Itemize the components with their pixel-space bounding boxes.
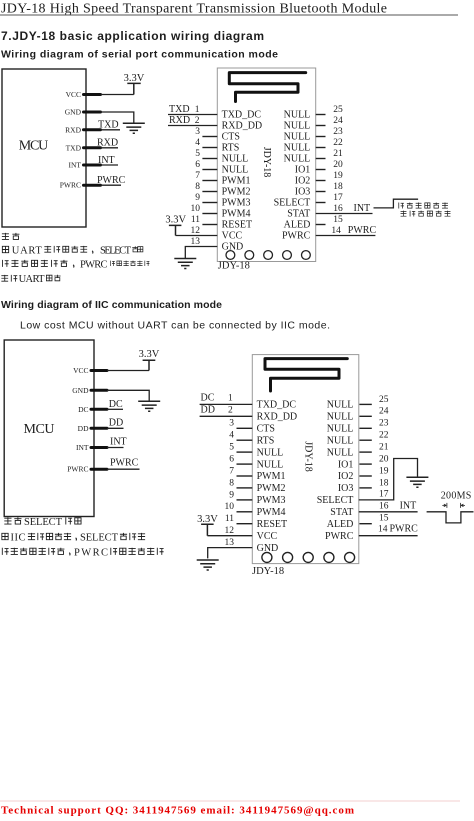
- wire VCC to 3.3V: [101, 94, 134, 96]
- svg-text:21: 21: [333, 149, 343, 159]
- svg-text:RESET: RESET: [222, 220, 253, 231]
- pin 2 wire RXD: [168, 125, 217, 127]
- svg-text:7: 7: [195, 171, 200, 181]
- svg-text:NULL: NULL: [327, 435, 354, 446]
- svg-text:22: 22: [333, 138, 343, 148]
- module2 castellation holes: [262, 552, 355, 562]
- svg-text:1: 1: [228, 394, 233, 404]
- svg-text:GND: GND: [65, 108, 82, 117]
- wire GND to ground: [101, 112, 134, 123]
- svg-text:INT: INT: [98, 155, 115, 166]
- svg-text:8: 8: [195, 182, 200, 192]
- ground symbol at SELECT: [406, 477, 428, 487]
- svg-text:GND: GND: [72, 386, 89, 395]
- svg-text:VCC: VCC: [73, 366, 88, 375]
- svg-text:INT: INT: [76, 443, 89, 452]
- svg-text:SELECT: SELECT: [100, 246, 132, 257]
- svg-text:22: 22: [379, 431, 389, 441]
- pin 12 wire VCC module2: [207, 535, 252, 537]
- svg-text:DD: DD: [109, 417, 123, 428]
- MCU2 pin DD stub: [91, 427, 107, 430]
- wire RXD: [101, 147, 119, 149]
- svg-text:INT: INT: [110, 437, 127, 448]
- pin numbers 3-11 module2: [225, 419, 235, 524]
- bottom faint rule: [0, 800, 460, 802]
- svg-text:10: 10: [225, 502, 235, 512]
- antenna trace: [229, 73, 305, 102]
- svg-text:3.3V: 3.3V: [165, 214, 186, 225]
- svg-text:23: 23: [379, 419, 389, 429]
- svg-text:DD: DD: [78, 424, 89, 433]
- pin 14 wire PWRC: [316, 235, 376, 237]
- svg-text:JDY-18: JDY-18: [218, 261, 250, 272]
- svg-text:PWM2: PWM2: [257, 483, 286, 494]
- right pin numbers module2: [378, 395, 389, 535]
- wire TXD: [101, 129, 121, 131]
- svg-text:10: 10: [191, 204, 201, 214]
- ground symbol at MCU GND: [123, 123, 145, 133]
- 3.3V power symbol: [127, 83, 140, 94]
- module right stubs 25-17: [316, 115, 326, 225]
- svg-text:RESET: RESET: [257, 519, 288, 530]
- svg-text:4: 4: [195, 138, 200, 148]
- svg-text:MCU: MCU: [19, 139, 49, 154]
- svg-text:IO3: IO3: [338, 483, 354, 494]
- svg-text:20: 20: [333, 160, 343, 170]
- svg-text:SELECT: SELECT: [80, 533, 119, 544]
- svg-text:NULL: NULL: [284, 154, 311, 165]
- pins 3-11 stubs: [202, 137, 217, 225]
- svg-text:9: 9: [195, 193, 200, 203]
- MCU pin RXD stub: [84, 128, 101, 131]
- svg-text:UART: UART: [12, 246, 43, 257]
- svg-text:21: 21: [379, 443, 389, 453]
- svg-text:24: 24: [379, 407, 389, 417]
- annotation2 注意SELECT引脚: [4, 517, 81, 528]
- pin 16 wire INT module2: [359, 511, 418, 513]
- svg-text:6: 6: [195, 160, 200, 170]
- svg-text:DD: DD: [201, 405, 215, 416]
- pin 1 wire TXD: [168, 114, 217, 116]
- svg-text:3: 3: [195, 127, 200, 137]
- svg-text:TXD_DC: TXD_DC: [257, 400, 297, 411]
- svg-text:6: 6: [229, 455, 234, 465]
- svg-text:RXD_DD: RXD_DD: [257, 412, 298, 423]
- note 未连接低电平: [401, 211, 451, 217]
- svg-text:NULL: NULL: [327, 412, 354, 423]
- step (level) wire: [374, 199, 419, 208]
- svg-text:CTS: CTS: [222, 132, 240, 143]
- svg-text:Low cost MCU without UART can: Low cost MCU without UART can be connect…: [20, 320, 330, 332]
- pin 14 wire PWRC module2: [359, 535, 418, 537]
- svg-text:25: 25: [333, 105, 343, 115]
- svg-text:Technical support QQ: 34119475: Technical support QQ: 3411947569 email: …: [1, 805, 354, 817]
- svg-text:NULL: NULL: [284, 110, 311, 121]
- svg-text:PWRC: PWRC: [60, 181, 81, 190]
- svg-text:IO2: IO2: [295, 176, 311, 187]
- svg-text:TXD: TXD: [66, 143, 82, 152]
- svg-text:9: 9: [229, 490, 234, 500]
- svg-text:NULL: NULL: [257, 459, 284, 470]
- pin 2 wire DD: [200, 415, 253, 417]
- svg-text:ALED: ALED: [284, 220, 311, 231]
- MCU pin GND stub: [84, 111, 101, 114]
- svg-text:INT: INT: [69, 161, 82, 170]
- annotation line2 在UART通信方式下，SELECT悬空: [2, 246, 143, 257]
- svg-text:VCC: VCC: [66, 90, 81, 99]
- MCU2 pin DC stub: [91, 408, 107, 411]
- svg-text:NULL: NULL: [327, 424, 354, 435]
- svg-text:NULL: NULL: [327, 447, 354, 458]
- antenna trace 2: [265, 359, 347, 391]
- pin 16 wire INT: [316, 213, 373, 215]
- svg-text:INT: INT: [400, 500, 417, 511]
- svg-text:5: 5: [195, 149, 200, 159]
- svg-text:RTS: RTS: [222, 143, 240, 154]
- svg-text:DC: DC: [201, 393, 215, 404]
- svg-text:16: 16: [379, 501, 389, 511]
- svg-text:NULL: NULL: [327, 400, 354, 411]
- svg-text:3.3V: 3.3V: [139, 349, 160, 360]
- module right pin labels: [274, 110, 311, 242]
- module U4 JDY-18 box: [252, 355, 358, 564]
- wire DD: [107, 427, 124, 429]
- svg-text:MCU: MCU: [24, 422, 55, 437]
- pin 13 wire GND: [185, 247, 217, 259]
- svg-text:14: 14: [331, 226, 341, 236]
- right pin numbers: [331, 105, 343, 236]
- svg-text:IO1: IO1: [338, 459, 354, 470]
- svg-text:11: 11: [191, 215, 200, 225]
- annotation line3 如不需要低功耗，PWRC引脚可以不接: [3, 260, 150, 271]
- svg-text:5: 5: [229, 443, 234, 453]
- module2 right pin labels: [317, 400, 354, 542]
- module left pin labels: [222, 110, 263, 253]
- svg-text:17: 17: [333, 193, 343, 203]
- svg-text:PWRC: PWRC: [80, 260, 108, 271]
- note 连接后高电平: [399, 203, 448, 209]
- annotation2 line2 在IIC通信方式下，SELECT要接地: [2, 533, 145, 544]
- svg-text:20: 20: [379, 455, 389, 465]
- MCU pin VCC stub: [84, 93, 101, 96]
- MCU2 pin PWRC stub: [91, 468, 107, 471]
- module castellation holes: [226, 251, 310, 260]
- svg-text:IO3: IO3: [295, 187, 311, 198]
- svg-text:14: 14: [378, 525, 388, 535]
- svg-text:PWRC: PWRC: [110, 458, 139, 469]
- pin 17 SELECT wire to ground: [359, 459, 418, 500]
- svg-text:Wiring diagram of IIC communic: Wiring diagram of IIC communication mode: [1, 299, 222, 311]
- svg-text:12: 12: [225, 526, 235, 536]
- svg-text:17: 17: [379, 489, 389, 499]
- svg-text:2: 2: [195, 116, 200, 126]
- svg-text:PWRC: PWRC: [325, 531, 354, 542]
- svg-text:200MS: 200MS: [441, 490, 472, 501]
- MCU2 pin VCC stub: [91, 369, 107, 372]
- ground symbol at MCU2: [138, 401, 160, 411]
- svg-text:3.3V: 3.3V: [197, 514, 218, 525]
- svg-text:TXD: TXD: [98, 120, 119, 131]
- svg-text:PWM4: PWM4: [257, 507, 286, 518]
- svg-text:RXD: RXD: [97, 137, 118, 148]
- module U2 JDY-18 box: [217, 68, 315, 262]
- svg-text:PWRC: PWRC: [97, 175, 126, 186]
- svg-text:ALED: ALED: [327, 519, 354, 530]
- svg-text:1: 1: [195, 105, 200, 115]
- svg-text:18: 18: [379, 478, 389, 488]
- pin 1 wire DC: [200, 403, 253, 405]
- svg-text:PWM2: PWM2: [222, 187, 251, 198]
- MCU pin TXD stub: [84, 146, 101, 149]
- wire INT2: [107, 447, 124, 449]
- svg-text:JDY-18: JDY-18: [261, 147, 272, 178]
- svg-text:NULL: NULL: [222, 154, 249, 165]
- pin 12 wire VCC: [176, 235, 218, 237]
- svg-text:SELECT: SELECT: [274, 198, 311, 209]
- wire VCC2: [107, 370, 149, 372]
- module2 left pin labels: [257, 400, 298, 554]
- svg-text:NULL: NULL: [257, 447, 284, 458]
- svg-text:PWM3: PWM3: [257, 495, 286, 506]
- svg-text:4: 4: [229, 431, 234, 441]
- svg-text:18: 18: [333, 182, 343, 192]
- MCU pin INT stub: [84, 164, 101, 167]
- svg-text:PWRC: PWRC: [348, 225, 377, 236]
- svg-text:24: 24: [333, 116, 343, 126]
- svg-text:TXD: TXD: [169, 104, 190, 115]
- svg-text:PWM1: PWM1: [257, 471, 286, 482]
- svg-text:NULL: NULL: [284, 143, 311, 154]
- wire PWRC: [101, 184, 122, 186]
- MCU U1 box: [2, 69, 86, 227]
- svg-text:DC: DC: [78, 405, 88, 414]
- svg-text:RTS: RTS: [257, 435, 275, 446]
- svg-text:25: 25: [379, 395, 389, 405]
- svg-text:JDY-18: JDY-18: [303, 441, 314, 472]
- pin 13 wire GND module2: [208, 548, 253, 559]
- pin numbers 3-11: [191, 127, 201, 225]
- svg-text:7.JDY-18 basic application wir: 7.JDY-18 basic application wiring diagra…: [1, 29, 264, 43]
- svg-text:VCC: VCC: [222, 231, 243, 242]
- svg-text:STAT: STAT: [330, 507, 353, 518]
- svg-text:11: 11: [225, 514, 234, 524]
- svg-text:15: 15: [333, 215, 343, 225]
- wire DC: [107, 408, 123, 410]
- svg-text:RXD_DD: RXD_DD: [222, 121, 263, 132]
- wire GND2 to ground: [107, 390, 149, 401]
- svg-text:NULL: NULL: [222, 165, 249, 176]
- svg-text:INT: INT: [354, 203, 371, 214]
- svg-text:3: 3: [229, 419, 234, 429]
- svg-text:PWM3: PWM3: [222, 198, 251, 209]
- module2 right stubs: [359, 404, 371, 523]
- MCU2 pin INT stub: [91, 446, 107, 449]
- svg-text:2: 2: [228, 406, 233, 416]
- svg-text:12: 12: [191, 226, 201, 236]
- svg-text:3.3V: 3.3V: [124, 73, 145, 84]
- svg-text:DC: DC: [109, 399, 123, 410]
- ground symbol below module2: [197, 560, 219, 570]
- svg-text:PWRC: PWRC: [74, 547, 108, 558]
- svg-text:13: 13: [191, 237, 201, 247]
- svg-text:PWM4: PWM4: [222, 209, 251, 220]
- annotation line4 通过UART唤醒: [1, 274, 60, 285]
- MCU U3 box: [4, 340, 94, 517]
- svg-text:8: 8: [229, 478, 234, 488]
- svg-text:PWRC: PWRC: [282, 231, 311, 242]
- svg-text:IIC: IIC: [11, 533, 26, 544]
- svg-text:STAT: STAT: [287, 209, 310, 220]
- svg-text:Wiring diagram of serial port: Wiring diagram of serial port communicat…: [1, 49, 278, 61]
- title rule: [0, 14, 458, 16]
- svg-text:JDY-18: JDY-18: [252, 566, 284, 577]
- svg-text:RXD: RXD: [169, 115, 190, 126]
- svg-text:13: 13: [225, 538, 235, 548]
- svg-text:TXD_DC: TXD_DC: [222, 110, 262, 121]
- MCU2 pin GND stub: [91, 389, 107, 392]
- svg-text:PWRC: PWRC: [67, 465, 88, 474]
- svg-text:19: 19: [379, 466, 389, 476]
- svg-text:PWM1: PWM1: [222, 176, 251, 187]
- svg-text:CTS: CTS: [257, 424, 275, 435]
- pulse waveform: [427, 512, 474, 523]
- pins 3-11 stubs module2: [237, 428, 253, 523]
- wire INT: [101, 164, 119, 166]
- svg-text:7: 7: [229, 466, 234, 476]
- svg-text:RXD: RXD: [65, 125, 81, 134]
- svg-text:SELECT: SELECT: [317, 495, 354, 506]
- svg-text:19: 19: [333, 171, 343, 181]
- svg-text:SELECT: SELECT: [24, 517, 63, 528]
- wire PWRC2: [107, 468, 140, 470]
- annotation2 line3 如不需要低功耗，PWRC引脚可以不接: [2, 547, 163, 558]
- svg-text:PWRC: PWRC: [390, 524, 419, 535]
- svg-text:NULL: NULL: [284, 132, 311, 143]
- arrows for pulse width: [442, 503, 465, 508]
- svg-text:VCC: VCC: [257, 531, 278, 542]
- annotation 注意: [2, 233, 20, 240]
- ground symbol below module: [174, 259, 196, 269]
- svg-text:IO2: IO2: [338, 471, 354, 482]
- svg-text:IO1: IO1: [295, 165, 311, 176]
- svg-text:JDY-18 High Speed Transparent: JDY-18 High Speed Transparent Transmissi…: [1, 2, 387, 17]
- svg-text:16: 16: [333, 204, 343, 214]
- svg-text:UART: UART: [19, 274, 46, 285]
- svg-text:NULL: NULL: [284, 121, 311, 132]
- MCU pin PWRC stub: [84, 184, 101, 187]
- svg-text:15: 15: [379, 514, 389, 524]
- svg-text:23: 23: [333, 127, 343, 137]
